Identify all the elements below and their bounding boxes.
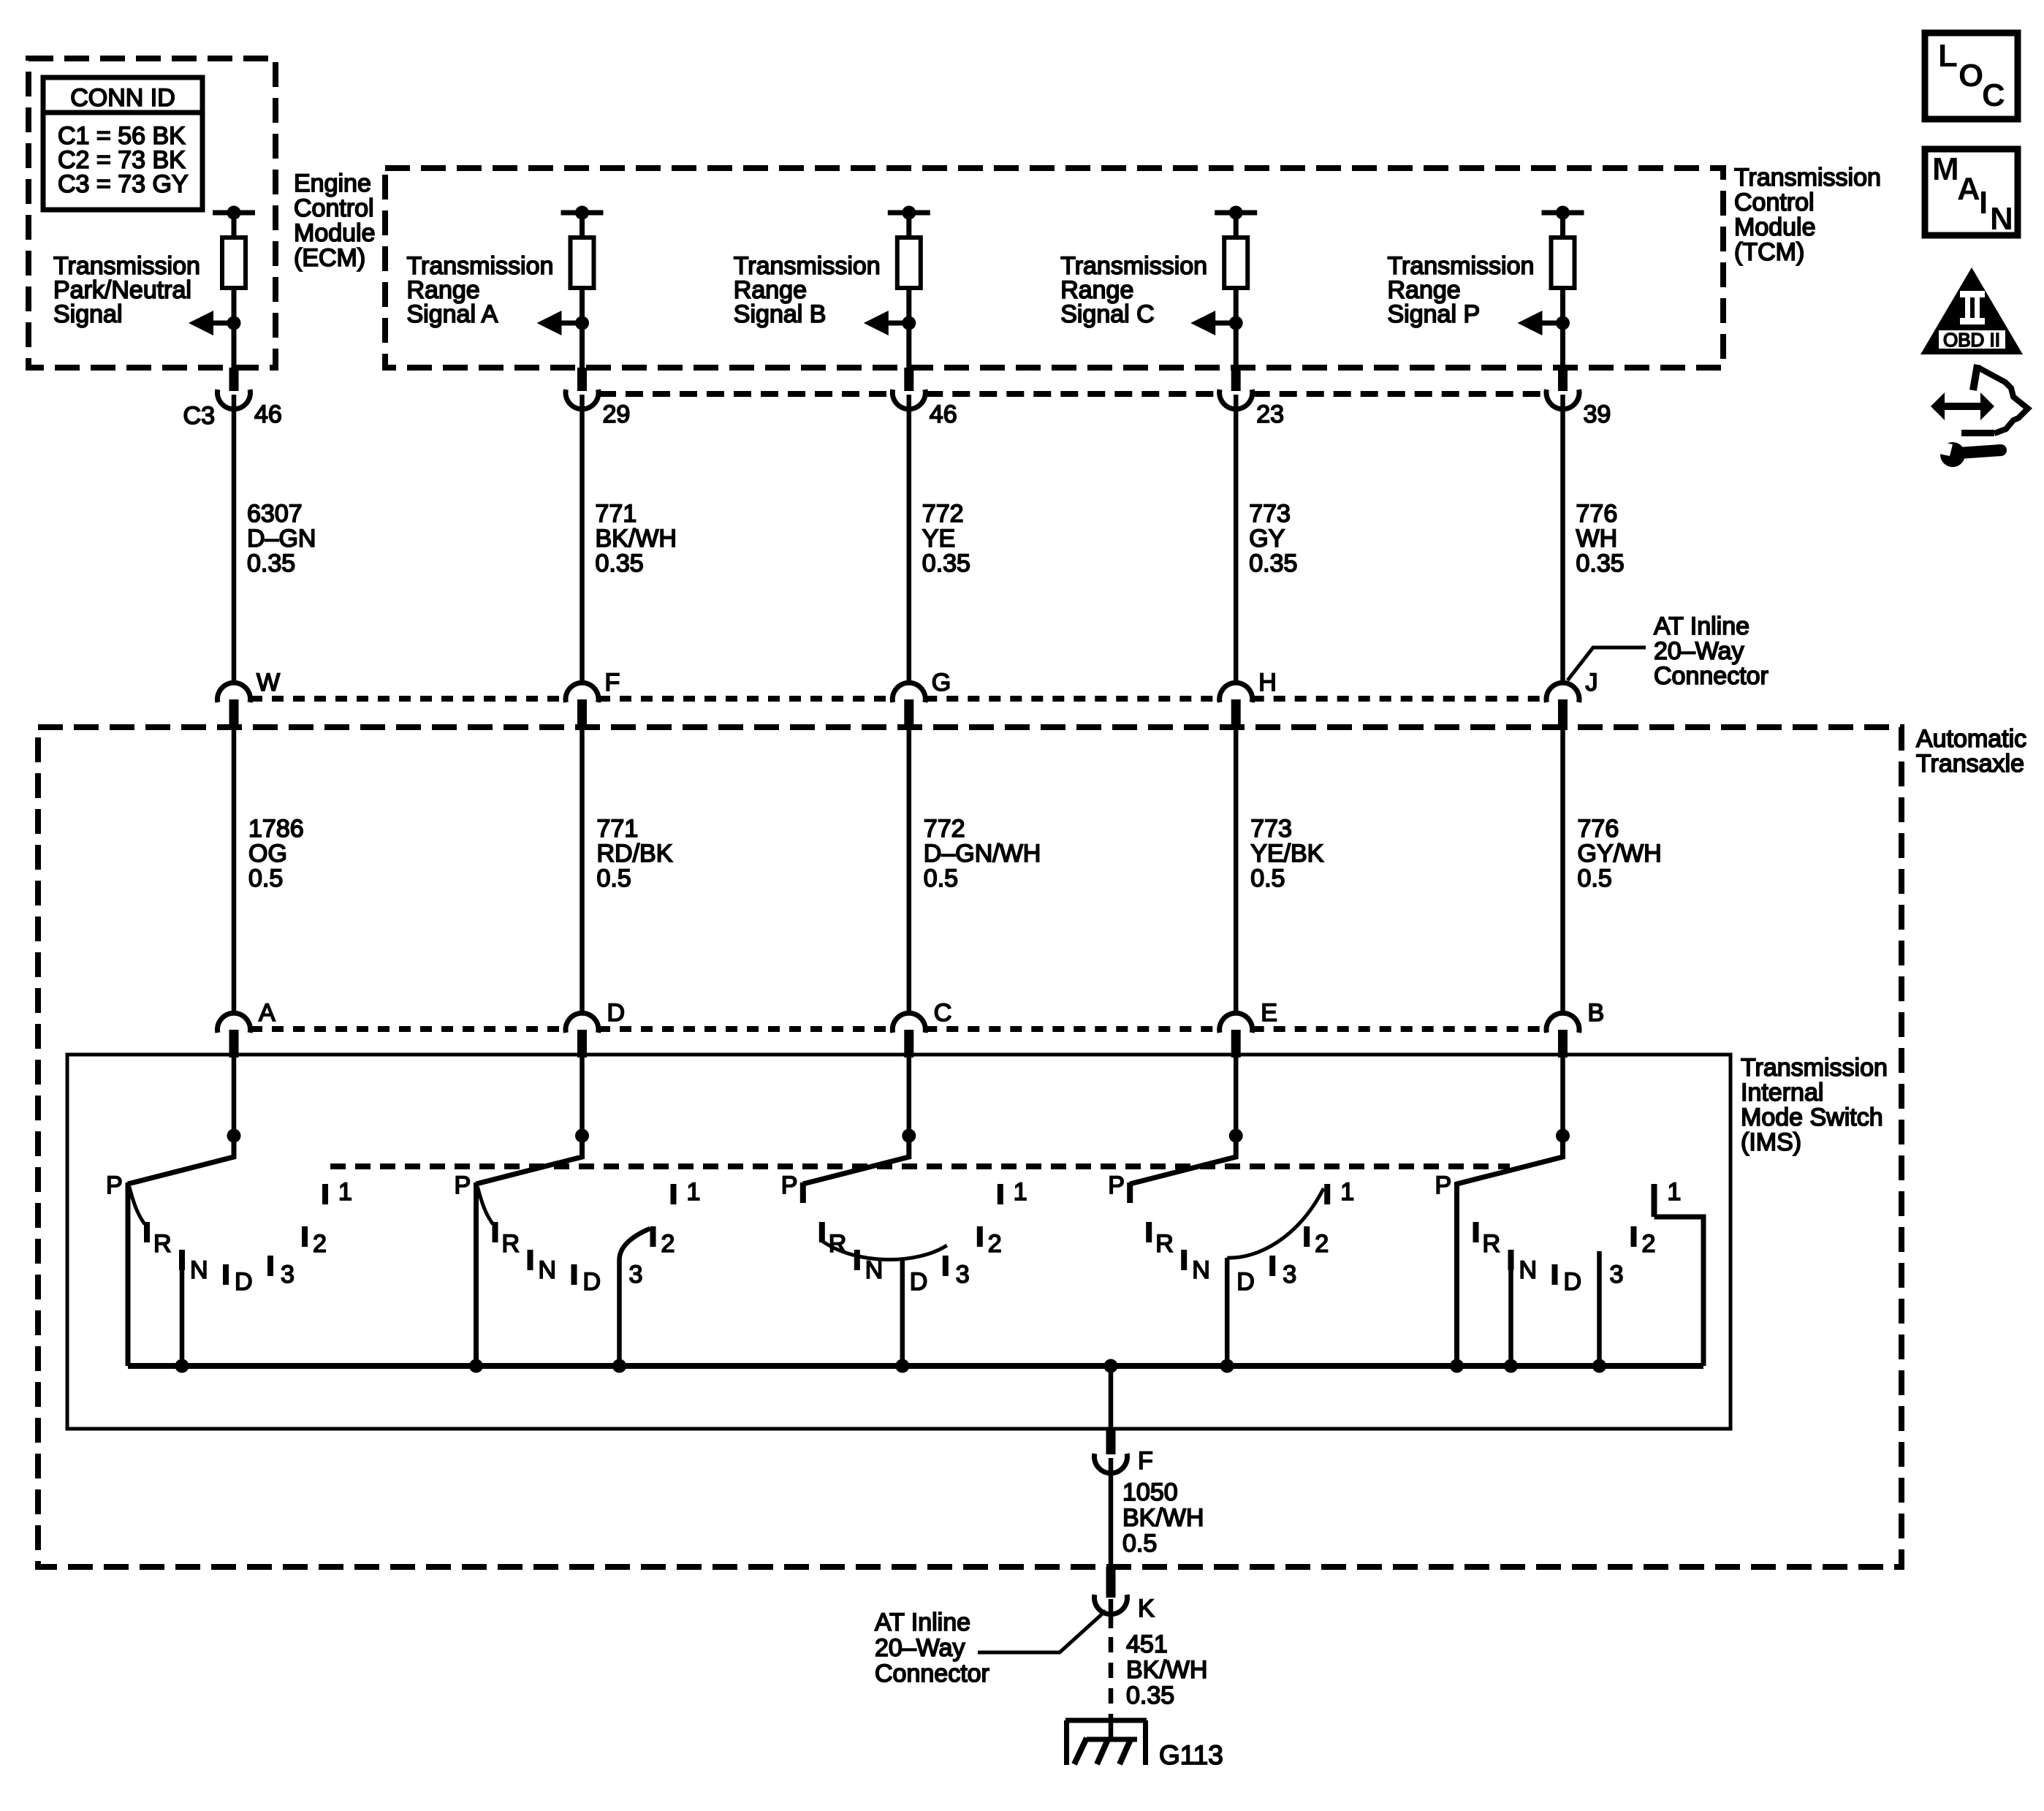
wire: D contact to ground bus	[900, 1258, 905, 1366]
svg-text:D: D	[910, 1268, 928, 1296]
svg-text:1786: 1786	[248, 815, 304, 843]
svg-text:Transmission: Transmission	[1741, 1054, 1888, 1082]
wire 771 RD/BK	[580, 730, 585, 1014]
svg-text:771: 771	[597, 815, 639, 843]
node: N drop junction	[1504, 1359, 1518, 1373]
connector terminal, pin F (AT inline)	[566, 683, 599, 702]
wire: P contact down to ground bus	[126, 1182, 131, 1366]
component box: Transmission Internal Mode Switch (IMS)	[67, 1055, 1730, 1429]
svg-text:0.5: 0.5	[924, 865, 958, 892]
CONN ID table	[43, 77, 202, 210]
svg-text:0.35: 0.35	[1126, 1682, 1174, 1709]
svg-text:P: P	[1435, 1172, 1452, 1199]
svg-text:2: 2	[1642, 1230, 1656, 1258]
svg-text:0.35: 0.35	[1576, 550, 1625, 577]
svg-text:N: N	[865, 1256, 884, 1284]
connector terminal, pin 46	[904, 368, 913, 391]
svg-text:B: B	[1588, 999, 1605, 1027]
connector terminal, pin G (AT inline)	[892, 683, 925, 702]
svg-text:0.5: 0.5	[597, 865, 631, 892]
wire 776 GY/WH	[1560, 730, 1565, 1014]
svg-text:N: N	[1990, 201, 2013, 237]
svg-text:I: I	[1979, 185, 1988, 221]
connector terminal, pin D (transaxle)	[566, 1013, 599, 1033]
signal arrow pointing left	[1211, 321, 1236, 326]
svg-text:OBD II: OBD II	[1943, 329, 2000, 351]
IMS switch 3 (Range Signal B): wiper at P	[902, 1129, 916, 1143]
svg-text:D: D	[1564, 1268, 1582, 1296]
svg-text:Internal: Internal	[1741, 1079, 1823, 1106]
signal arrow pointing left	[1538, 321, 1563, 326]
wire: 1 contact hook to ground bus	[1652, 1184, 1657, 1217]
wire 771 BK/WH	[580, 395, 585, 684]
connector terminal, pin 29	[577, 368, 587, 391]
connector terminal, pin F	[1106, 1429, 1116, 1454]
svg-text:(ECM): (ECM)	[294, 244, 365, 272]
svg-text:D–GN: D–GN	[247, 525, 316, 553]
svg-text:OG: OG	[248, 840, 287, 867]
svg-text:6307: 6307	[247, 500, 303, 528]
IMS switch 1 (Park/Neutral signal): wiper at P	[227, 1129, 241, 1143]
wire: 3 contact to ground bus, curved to 2	[620, 1229, 650, 1366]
svg-text:R: R	[502, 1230, 520, 1258]
svg-text:1050: 1050	[1122, 1478, 1178, 1506]
svg-text:D: D	[583, 1268, 601, 1296]
wire below resistor	[232, 288, 237, 368]
svg-text:G: G	[932, 669, 951, 696]
connector terminal, pin K (AT inline)	[1106, 1567, 1116, 1598]
svg-text:P: P	[1108, 1172, 1125, 1199]
svg-text:Automatic: Automatic	[1916, 725, 2026, 753]
svg-text:C3 = 73 GY: C3 = 73 GY	[58, 170, 189, 198]
svg-text:(TCM): (TCM)	[1734, 238, 1804, 266]
svg-text:23: 23	[1256, 400, 1284, 428]
svg-text:2: 2	[661, 1230, 675, 1258]
svg-text:K: K	[1138, 1595, 1155, 1622]
svg-text:Module: Module	[294, 219, 376, 247]
svg-text:A: A	[259, 999, 276, 1027]
connector terminal, pin H (AT inline)	[1220, 683, 1253, 702]
svg-text:39: 39	[1584, 400, 1611, 428]
wire 773 GY	[1234, 395, 1239, 684]
wire: contact arc D-3-2-1	[1227, 1188, 1323, 1258]
resistor (module internal) x=1691.2	[1224, 238, 1247, 288]
svg-text:0.35: 0.35	[922, 550, 970, 577]
svg-text:Connector: Connector	[1654, 662, 1768, 690]
svg-text:773: 773	[1249, 500, 1291, 528]
svg-text:Signal: Signal	[53, 300, 123, 328]
svg-text:O: O	[1958, 58, 1983, 94]
svg-text:20–Way: 20–Way	[875, 1634, 965, 1662]
wire: D contact to ground bus	[1225, 1258, 1230, 1366]
svg-text:F: F	[1138, 1447, 1153, 1475]
connector terminal, pin 39	[1558, 368, 1568, 391]
node: 3 drop junction	[1592, 1359, 1606, 1373]
svg-text:F: F	[605, 669, 620, 696]
wire: tee bar at top of resistor x=320	[213, 210, 255, 216]
svg-text:3: 3	[1610, 1261, 1624, 1288]
connector terminal, pin B (transaxle)	[1546, 1013, 1579, 1033]
svg-text:46: 46	[254, 400, 282, 428]
wire into IMS switch 3	[907, 1058, 912, 1136]
dashed connector line, AT inline row W F G H J	[251, 696, 566, 702]
node: D drop junction	[895, 1359, 909, 1373]
svg-text:AT Inline: AT Inline	[1654, 612, 1749, 640]
svg-text:GY/WH: GY/WH	[1578, 840, 1662, 867]
svg-text:2: 2	[313, 1230, 327, 1258]
wire 776 WH	[1560, 395, 1565, 684]
connector terminal, pin A (transaxle)	[218, 1013, 251, 1033]
svg-text:1: 1	[1668, 1178, 1682, 1206]
dashed connector line, transaxle row A D C E B	[251, 1026, 566, 1032]
connector terminal, pin E (transaxle)	[1220, 1013, 1253, 1033]
svg-text:CONN ID: CONN ID	[70, 84, 175, 112]
svg-text:776: 776	[1578, 815, 1619, 843]
svg-text:C3: C3	[183, 402, 215, 430]
connector terminal, pin 23	[1231, 368, 1241, 391]
svg-text:P: P	[106, 1172, 123, 1199]
node: bus to pin F junction	[1104, 1359, 1118, 1373]
svg-text:AT Inline: AT Inline	[875, 1609, 970, 1636]
wire 773 YE/BK	[1234, 730, 1239, 1014]
svg-text:Engine: Engine	[294, 170, 371, 197]
svg-text:M: M	[1932, 151, 1959, 187]
wire below resistor	[580, 288, 585, 368]
svg-text:YE: YE	[922, 525, 955, 553]
svg-text:N: N	[539, 1256, 557, 1284]
wire into IMS switch 1	[232, 1058, 237, 1136]
svg-text:Transmission: Transmission	[1734, 164, 1881, 191]
IMS switch 4 (Range Signal C): wiper at P	[1229, 1129, 1243, 1143]
wire: P contact down to ground bus	[1454, 1182, 1459, 1366]
module box: Engine Control Module (ECM), dashed	[29, 58, 276, 368]
node: N drop junction	[175, 1359, 189, 1373]
svg-text:E: E	[1261, 999, 1277, 1027]
IMS switch 5 (Range Signal P): wiper at P	[1556, 1129, 1570, 1143]
svg-text:C: C	[934, 999, 952, 1027]
svg-text:1: 1	[1014, 1178, 1027, 1206]
svg-text:451: 451	[1126, 1630, 1168, 1658]
wire below resistor	[1234, 288, 1239, 368]
svg-text:J: J	[1586, 669, 1598, 696]
wire 1050 BK/WH 0.5	[1109, 1458, 1114, 1567]
svg-text:3: 3	[956, 1261, 970, 1288]
svg-text:H: H	[1258, 669, 1277, 696]
svg-text:772: 772	[924, 815, 965, 843]
ground symbol G113	[1065, 1718, 1147, 1723]
dashed connector line, ECM/TCM pin row	[599, 391, 892, 397]
svg-text:RD/BK: RD/BK	[597, 840, 673, 867]
wire 772 YE	[907, 395, 912, 684]
wire: N contact to ground bus	[179, 1250, 185, 1270]
svg-text:P: P	[455, 1172, 471, 1199]
svg-text:Mode Switch: Mode Switch	[1741, 1104, 1883, 1131]
svg-text:BK/WH: BK/WH	[596, 525, 677, 553]
wire below resistor	[1560, 288, 1565, 368]
svg-text:20–Way: 20–Way	[1654, 637, 1744, 665]
svg-text:0.35: 0.35	[596, 550, 644, 577]
svg-text:R: R	[829, 1230, 847, 1258]
component box: Automatic Transaxle, dashed	[38, 727, 1901, 1567]
svg-text:Control: Control	[294, 194, 374, 222]
wire into IMS switch 5	[1560, 1058, 1565, 1136]
svg-text:P: P	[781, 1172, 798, 1199]
svg-text:N: N	[1192, 1256, 1210, 1284]
svg-text:1: 1	[687, 1178, 701, 1206]
svg-text:0.35: 0.35	[1249, 550, 1297, 577]
wire: P contact down to ground bus	[474, 1182, 479, 1366]
dashed line linking switch wipers inside IMS	[330, 1163, 1510, 1169]
icon: transaxle service pictograph with double arrow and wrench	[1929, 365, 2028, 467]
wire: tee bar at top of resistor x=796.5	[561, 210, 604, 216]
svg-text:29: 29	[603, 400, 631, 428]
wire: tee bar at top of resistor x=1691.2	[1215, 210, 1257, 216]
svg-text:D: D	[235, 1268, 253, 1296]
connector terminal, pin C (transaxle)	[892, 1013, 925, 1033]
wire from bus to pin F	[1109, 1366, 1114, 1430]
svg-text:Connector: Connector	[875, 1660, 989, 1687]
svg-text:WH: WH	[1576, 525, 1618, 553]
signal arrow pointing left	[209, 321, 234, 326]
wire 451 BK/WH 0.35	[1109, 1599, 1114, 1628]
svg-text:0.5: 0.5	[1250, 865, 1285, 892]
svg-text:YE/BK: YE/BK	[1250, 840, 1323, 867]
wire: contact arc R-N-D-3	[822, 1241, 947, 1260]
svg-text:C: C	[1982, 77, 2005, 113]
wire 6307 D–GN	[232, 395, 237, 684]
svg-text:BK/WH: BK/WH	[1126, 1656, 1207, 1684]
signal arrow pointing left	[884, 321, 909, 326]
wire into IMS switch 2	[580, 1058, 585, 1136]
wire below resistor	[906, 288, 911, 368]
svg-text:772: 772	[922, 500, 964, 528]
svg-text:Module: Module	[1734, 213, 1816, 241]
svg-text:Signal A: Signal A	[407, 300, 498, 328]
svg-text:Control: Control	[1734, 189, 1815, 216]
svg-text:A: A	[1957, 171, 1980, 207]
wire: tee bar at top of resistor x=2138.5	[1542, 210, 1584, 216]
svg-text:D–GN/WH: D–GN/WH	[924, 840, 1041, 867]
svg-text:(IMS): (IMS)	[1741, 1128, 1801, 1156]
IMS switch 2 (Range Signal A): wiper at P	[575, 1129, 589, 1143]
svg-text:R: R	[153, 1230, 172, 1258]
svg-text:R: R	[1483, 1230, 1501, 1258]
svg-text:W: W	[257, 669, 280, 696]
resistor (module internal) x=2138.5	[1551, 238, 1575, 288]
svg-text:0.35: 0.35	[247, 550, 295, 577]
svg-text:1: 1	[1340, 1178, 1354, 1206]
resistor (module internal) x=796.5	[571, 238, 594, 288]
svg-text:GY: GY	[1249, 525, 1285, 553]
connector terminal, pin J (AT inline)	[1546, 683, 1579, 702]
svg-text:Signal B: Signal B	[734, 300, 827, 328]
svg-text:Transaxle: Transaxle	[1916, 750, 2024, 778]
svg-text:0.5: 0.5	[1122, 1530, 1157, 1557]
svg-text:773: 773	[1250, 815, 1292, 843]
svg-text:46: 46	[930, 400, 957, 428]
node: D drop junction	[1220, 1359, 1234, 1373]
svg-text:BK/WH: BK/WH	[1122, 1504, 1204, 1532]
svg-text:Signal C: Signal C	[1060, 300, 1155, 328]
svg-text:Signal P: Signal P	[1388, 300, 1481, 328]
connector terminal, pin 46 (C3)	[229, 368, 239, 391]
icon: OBD II triangle	[1920, 267, 2023, 354]
svg-text:2: 2	[988, 1230, 1002, 1258]
wire: IMS common ground bus	[128, 1363, 1703, 1369]
module box: Transmission Control Module (TCM), dashed	[385, 168, 1723, 368]
svg-text:L: L	[1938, 38, 1958, 74]
node: P drop junction	[469, 1359, 483, 1373]
svg-text:776: 776	[1576, 500, 1618, 528]
svg-text:D: D	[1236, 1268, 1255, 1296]
resistor (module internal) x=1243.8	[897, 238, 921, 288]
connector terminal, pin W (AT inline)	[218, 683, 251, 702]
svg-text:0.5: 0.5	[248, 865, 283, 892]
signal arrow pointing left	[558, 321, 582, 326]
node: P drop junction	[1450, 1359, 1464, 1373]
svg-text:3: 3	[1283, 1261, 1296, 1288]
wire 772 D–GN/WH	[907, 730, 912, 1014]
icon: LOC reference box	[1925, 33, 2018, 119]
wire 1786 OG	[232, 730, 237, 1014]
svg-text:R: R	[1155, 1230, 1174, 1258]
svg-text:N: N	[190, 1256, 208, 1284]
wire: 3 contact to ground bus	[1597, 1251, 1602, 1366]
wire: N contact to ground bus	[1508, 1250, 1514, 1270]
icon: MAIN reference box	[1925, 149, 2018, 235]
svg-text:2: 2	[1315, 1230, 1329, 1258]
node: 3 drop junction	[612, 1359, 626, 1373]
svg-text:771: 771	[596, 500, 637, 528]
resistor (module internal) x=320	[222, 238, 246, 288]
svg-text:1: 1	[338, 1178, 352, 1206]
svg-text:G113: G113	[1159, 1740, 1223, 1770]
svg-text:D: D	[607, 999, 626, 1027]
svg-text:3: 3	[281, 1261, 295, 1288]
wire into IMS switch 4	[1234, 1058, 1239, 1136]
wire: tee bar at top of resistor x=1243.8	[888, 210, 930, 216]
svg-text:3: 3	[629, 1261, 643, 1288]
svg-text:N: N	[1519, 1256, 1538, 1284]
svg-text:0.5: 0.5	[1578, 865, 1612, 892]
